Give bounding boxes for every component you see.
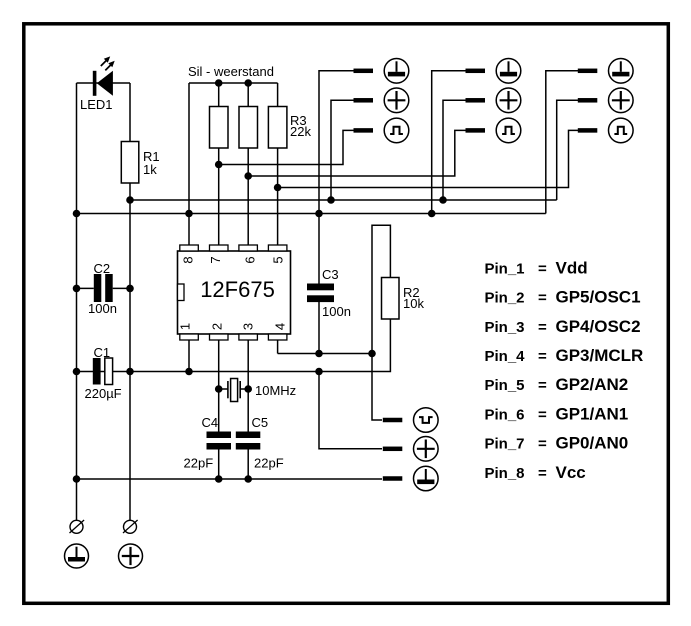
- connector J3 ground: [578, 59, 633, 84]
- svg-text:100n: 100n: [88, 301, 117, 316]
- svg-text:GP4/OSC2: GP4/OSC2: [556, 317, 641, 336]
- wire MCLR node y353.5: [278, 353, 372, 355]
- wire pin2 to C4: [218, 340, 220, 432]
- connector J1 plus: [354, 88, 409, 113]
- svg-text:Vdd: Vdd: [556, 258, 588, 277]
- svg-text:6: 6: [243, 256, 258, 263]
- svg-text:Pin_8: Pin_8: [485, 465, 525, 482]
- svg-text:=: =: [538, 465, 547, 482]
- wire pin8 vertical: [188, 83, 190, 245]
- svg-text:=: =: [538, 377, 547, 394]
- wire pin5 net y187.5: [278, 130, 579, 187]
- wire SIL2 top stub: [247, 83, 249, 107]
- svg-text:C2: C2: [94, 261, 111, 276]
- wire LED right to R1 top: [129, 83, 131, 142]
- svg-text:=: =: [538, 436, 547, 453]
- wire SIL1 bottom to pin7: [218, 148, 220, 245]
- svg-text:C5: C5: [252, 415, 269, 430]
- resistor SIL-1: [210, 107, 229, 149]
- svg-text:LED1: LED1: [80, 97, 113, 112]
- svg-text:=: =: [538, 348, 547, 365]
- connector J2 ground: [466, 59, 521, 84]
- wire R2 bottom to Vdd rail: [77, 319, 391, 372]
- connector J4 ground: [383, 466, 438, 491]
- wire C4 bottom: [218, 450, 220, 480]
- capacitor C4: [207, 432, 232, 450]
- wire pin3 to C5: [247, 340, 249, 432]
- connector J1 ground: [354, 59, 409, 84]
- wire MCLR to R2 top: [372, 225, 390, 353]
- svg-text:GP5/OSC1: GP5/OSC1: [556, 288, 641, 307]
- wire C5 bottom: [247, 450, 249, 480]
- resistor R1: [121, 142, 139, 184]
- resistor SIL-2: [239, 107, 258, 149]
- resistor R2: [382, 278, 400, 320]
- crystal X1: [219, 379, 249, 402]
- svg-text:7: 7: [208, 256, 223, 263]
- svg-text:=: =: [538, 260, 547, 277]
- svg-text:100n: 100n: [322, 304, 351, 319]
- svg-text:=: =: [538, 290, 547, 307]
- wire SIL2 bottom to pin6: [247, 148, 249, 245]
- wire C3 bottom to MCLR node: [318, 302, 320, 354]
- capacitor C1 electrolytic: [93, 358, 113, 385]
- svg-text:C4: C4: [202, 415, 219, 430]
- wire ground-left vertical x76: [76, 83, 78, 521]
- wire SIL top rail y83: [189, 82, 278, 84]
- wire pin7 net y164.5: [219, 130, 354, 164]
- LED LED1: [93, 56, 115, 95]
- svg-text:22k: 22k: [290, 124, 311, 139]
- connector J4 plus: [383, 437, 438, 462]
- wire group1 ground drop: [319, 71, 354, 284]
- svg-text:Pin_1: Pin_1: [485, 260, 525, 277]
- svg-text:10MHz: 10MHz: [255, 383, 296, 398]
- svg-text:3: 3: [241, 323, 256, 330]
- svg-text:Sil - weerstand: Sil - weerstand: [188, 64, 274, 79]
- wire SIL1 top stub: [218, 83, 220, 107]
- svg-text:10k: 10k: [403, 296, 424, 311]
- screw terminal ground: [70, 520, 85, 533]
- svg-text:GP1/AN1: GP1/AN1: [556, 404, 629, 423]
- wire pin6 net y176: [248, 130, 467, 176]
- plus symbol bottom-left: [119, 544, 143, 568]
- wire R1 bottom vertical x130: [129, 183, 131, 521]
- svg-text:C3: C3: [322, 267, 339, 282]
- wire ground rail y213.5: [77, 213, 546, 215]
- svg-text:2: 2: [210, 323, 225, 330]
- svg-text:C1: C1: [94, 345, 111, 360]
- svg-text:8: 8: [181, 256, 196, 263]
- svg-text:=: =: [538, 319, 547, 336]
- svg-text:22pF: 22pF: [184, 456, 214, 471]
- wire SIL3 bottom to pin5: [277, 148, 279, 245]
- wire group3 ground drop: [546, 71, 579, 214]
- svg-text:220µF: 220µF: [85, 386, 122, 401]
- connector J2 plus: [466, 88, 521, 113]
- connector J3 plus: [578, 88, 633, 113]
- ground symbol bottom-left: [65, 544, 89, 568]
- svg-text:22pF: 22pF: [254, 456, 284, 471]
- svg-text:12F675: 12F675: [200, 277, 275, 302]
- svg-text:Pin_5: Pin_5: [485, 377, 525, 394]
- svg-text:GP2/AN2: GP2/AN2: [556, 375, 629, 394]
- svg-text:Pin_3: Pin_3: [485, 319, 525, 336]
- svg-text:1: 1: [178, 323, 193, 330]
- wire bottom ground rail y479: [77, 478, 383, 480]
- connector J2 pulse: [466, 118, 521, 143]
- svg-text:Pin_6: Pin_6: [485, 406, 525, 423]
- wire group1 plus drop: [331, 100, 354, 200]
- wire group2 ground drop: [432, 71, 467, 214]
- svg-text:GP3/MCLR: GP3/MCLR: [556, 346, 644, 365]
- svg-text:GP0/AN0: GP0/AN0: [556, 434, 629, 453]
- wire group2 plus drop: [443, 100, 467, 200]
- svg-text:5: 5: [271, 256, 286, 263]
- connector J4 pulse-output: [383, 408, 438, 433]
- svg-text:Vcc: Vcc: [556, 463, 586, 482]
- wire pin4 drop: [277, 340, 279, 354]
- svg-text:=: =: [538, 406, 547, 423]
- connector J3 pulse: [578, 118, 633, 143]
- svg-text:Pin_4: Pin_4: [485, 348, 526, 365]
- capacitor C3: [307, 284, 334, 303]
- wire SIL3 top stub: [277, 83, 279, 107]
- pin legend: [485, 258, 644, 481]
- wire pin1 to Vdd: [188, 340, 190, 372]
- svg-text:Pin_2: Pin_2: [485, 290, 525, 307]
- connector J1 pulse: [354, 118, 409, 143]
- wire LED row y83: [77, 82, 131, 84]
- screw terminal plus: [123, 520, 138, 533]
- wire MCLR to pulse-out connector: [372, 354, 382, 421]
- svg-text:4: 4: [273, 323, 288, 330]
- wire group3 plus drop: [557, 100, 579, 200]
- IC U1 12F675: [178, 245, 291, 340]
- svg-text:Pin_7: Pin_7: [485, 436, 525, 453]
- capacitor C5: [236, 432, 260, 450]
- resistor SIL-3 R3: [268, 107, 287, 149]
- wire Vdd drop to plus connector: [319, 372, 382, 449]
- wire Vdd rail y200: [130, 199, 557, 201]
- capacitor C2: [77, 274, 131, 302]
- svg-text:1k: 1k: [143, 162, 157, 177]
